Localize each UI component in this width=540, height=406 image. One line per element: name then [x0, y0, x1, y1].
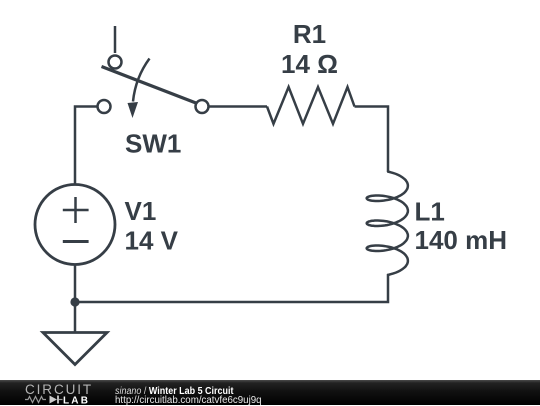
- resistor R1: [267, 87, 355, 124]
- wire V1 bottom to junction: [74, 265, 77, 303]
- label V1 value 14 V: [125, 196, 179, 256]
- footer credits: [115, 387, 233, 397]
- inductor L1: [367, 172, 408, 276]
- svg-text:L1: L1: [415, 197, 445, 227]
- svg-text:14 Ω: 14 Ω: [281, 49, 338, 79]
- svg-text:140 mH: 140 mH: [415, 225, 508, 255]
- svg-text:SW1: SW1: [125, 129, 181, 159]
- label R1 value 14 ohm: [281, 19, 338, 79]
- footer bar: [0, 380, 540, 406]
- switch SW1: [98, 26, 209, 118]
- ground: [43, 302, 107, 365]
- CircuitLab logo: [25, 384, 105, 406]
- wire switch right throw to R1: [209, 105, 268, 108]
- wire switch left throw to V1 top: [75, 107, 98, 185]
- svg-text:V1: V1: [125, 196, 157, 226]
- svg-text:LAB: LAB: [63, 395, 90, 405]
- svg-text:14 V: 14 V: [125, 226, 179, 256]
- junction node: [70, 297, 79, 306]
- wire bottom rail junction to L1 bottom: [75, 274, 388, 302]
- label L1 value 140 mH: [415, 197, 508, 255]
- wire R1 to L1 top: [355, 107, 389, 173]
- svg-text:R1: R1: [293, 19, 326, 49]
- voltage source V1: [35, 185, 115, 265]
